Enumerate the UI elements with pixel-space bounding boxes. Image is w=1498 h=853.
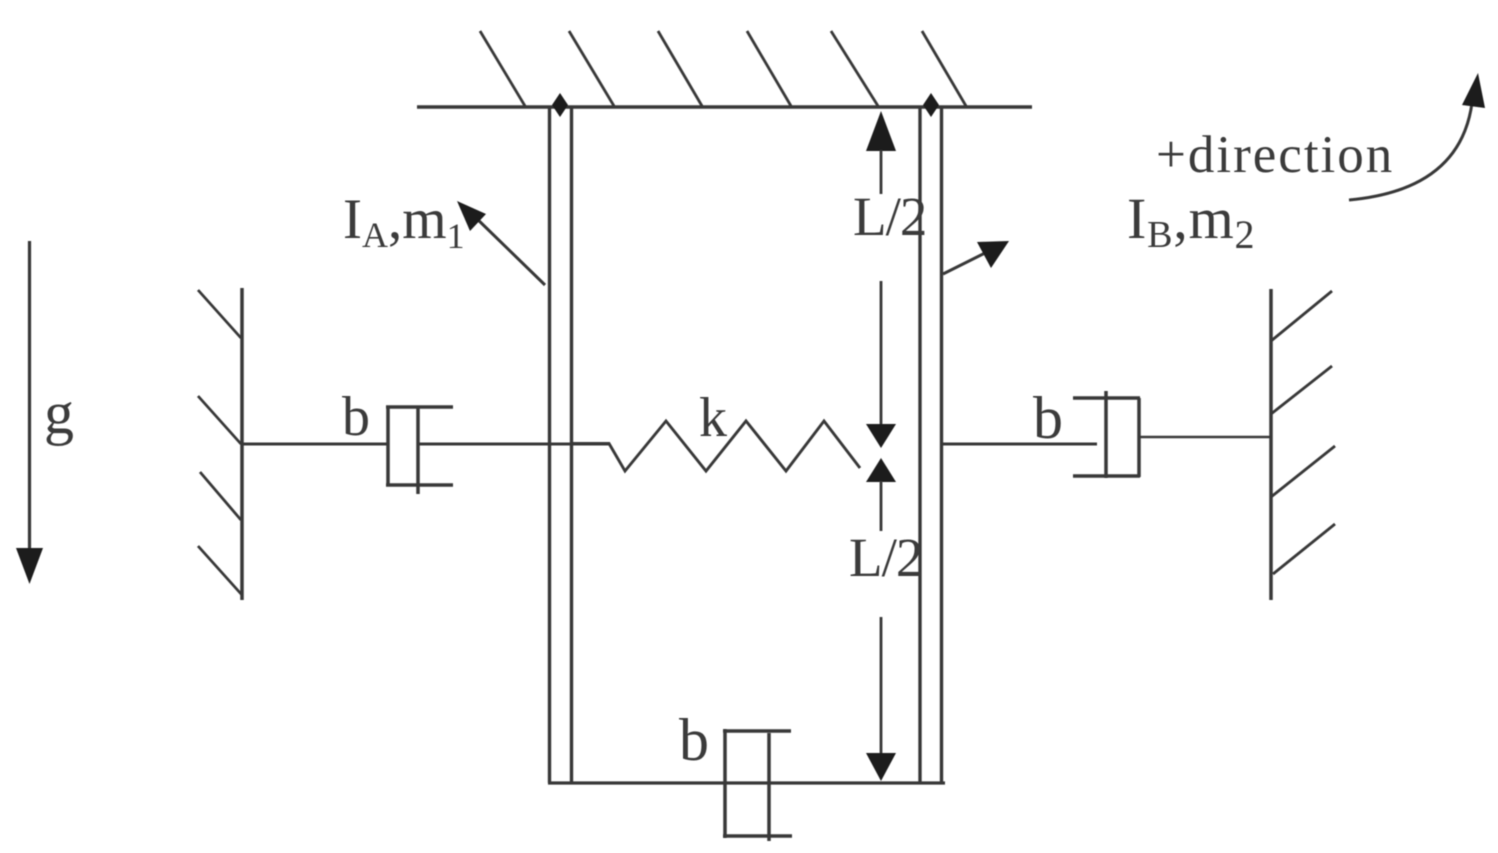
svg-text:k: k bbox=[699, 387, 727, 449]
dimension lower arrowhead up bbox=[866, 458, 896, 482]
dimension upper line seg 2 bbox=[880, 281, 883, 430]
rod B right edge bbox=[940, 107, 943, 783]
ceiling line bbox=[417, 105, 1032, 109]
damper b1 cylinder left plate bbox=[386, 407, 390, 486]
damper b3 cylinder bottom edge bbox=[723, 834, 792, 838]
damper b1 cylinder top edge bbox=[386, 405, 453, 409]
right wall hatch 1 bbox=[1271, 291, 1332, 341]
gravity arrowhead bbox=[16, 548, 43, 584]
dimension upper arrowhead down bbox=[866, 424, 896, 448]
ceiling hatch 6 bbox=[922, 31, 966, 106]
damper b2 cylinder right plate bbox=[1137, 398, 1141, 477]
dimension lower arrowhead down bbox=[866, 753, 896, 781]
damper b3 cylinder top edge bbox=[723, 729, 791, 733]
svg-text:L/2: L/2 bbox=[849, 527, 922, 588]
rod B left edge bbox=[918, 107, 921, 783]
ceiling hatch 3 bbox=[658, 31, 702, 106]
right wall hatch 2 bbox=[1271, 366, 1332, 414]
damper b1 piston plate bbox=[416, 408, 420, 494]
leader arrow to rod A label bbox=[472, 214, 545, 285]
ceiling hatch 2 bbox=[569, 31, 614, 106]
pivot A (left rod pin) bbox=[552, 93, 568, 117]
svg-text:L/2: L/2 bbox=[853, 186, 926, 247]
damper b2 piston plate bbox=[1104, 391, 1108, 478]
svg-text:IA,m1: IA,m1 bbox=[343, 188, 465, 256]
damper b3 cylinder left plate bbox=[723, 729, 727, 838]
right wall hatch 3 bbox=[1271, 446, 1335, 497]
rod A left edge bbox=[548, 107, 551, 783]
left wall hatch 2 bbox=[198, 396, 241, 444]
leader arrow from rod B bbox=[943, 253, 985, 274]
+direction arrowhead bbox=[1462, 73, 1485, 108]
damper b2 cylinder bottom edge bbox=[1073, 474, 1140, 478]
bottom connecting bar bbox=[548, 781, 945, 784]
damper b1 piston rod to rod A bbox=[418, 443, 609, 446]
dimension lower line seg 2 bbox=[880, 617, 883, 755]
left wall bbox=[240, 288, 244, 600]
leader arrowhead rod B bbox=[977, 241, 1009, 268]
left wall hatch 4 bbox=[198, 546, 242, 595]
+direction curved arrow arc bbox=[1349, 103, 1472, 200]
ceiling hatch 5 bbox=[831, 31, 878, 106]
dimension upper line seg 1 bbox=[880, 150, 883, 194]
svg-text:b: b bbox=[342, 386, 370, 448]
left wall hatch 3 bbox=[200, 472, 241, 520]
dimension lower line seg 1 bbox=[880, 481, 883, 531]
damper b2 rod to right wall bbox=[1139, 436, 1271, 439]
pivot B (right rod pin) bbox=[923, 93, 939, 117]
svg-text:b: b bbox=[1033, 385, 1063, 451]
rod A right edge bbox=[570, 107, 573, 783]
svg-text:+direction: +direction bbox=[1156, 126, 1394, 184]
right wall bbox=[1269, 289, 1273, 600]
damper b2 link rod from rod B bbox=[941, 443, 1097, 446]
spring k bbox=[571, 421, 860, 471]
svg-text:b: b bbox=[679, 707, 709, 773]
damper b3 piston plate bbox=[767, 733, 771, 841]
damper b2 cylinder top edge bbox=[1073, 396, 1140, 400]
leader arrowhead rod A bbox=[457, 201, 486, 231]
ceiling hatch 1 bbox=[480, 31, 525, 106]
svg-text:g: g bbox=[44, 380, 74, 446]
damper b1 cylinder bottom edge bbox=[386, 483, 453, 487]
left wall hatch 1 bbox=[198, 290, 241, 338]
gravity arrow line bbox=[28, 241, 31, 552]
dimension upper arrowhead up bbox=[866, 111, 896, 151]
ceiling hatch 4 bbox=[747, 31, 791, 106]
damper b1 wall link rod bbox=[242, 443, 388, 446]
right wall hatch 4 bbox=[1273, 524, 1335, 574]
